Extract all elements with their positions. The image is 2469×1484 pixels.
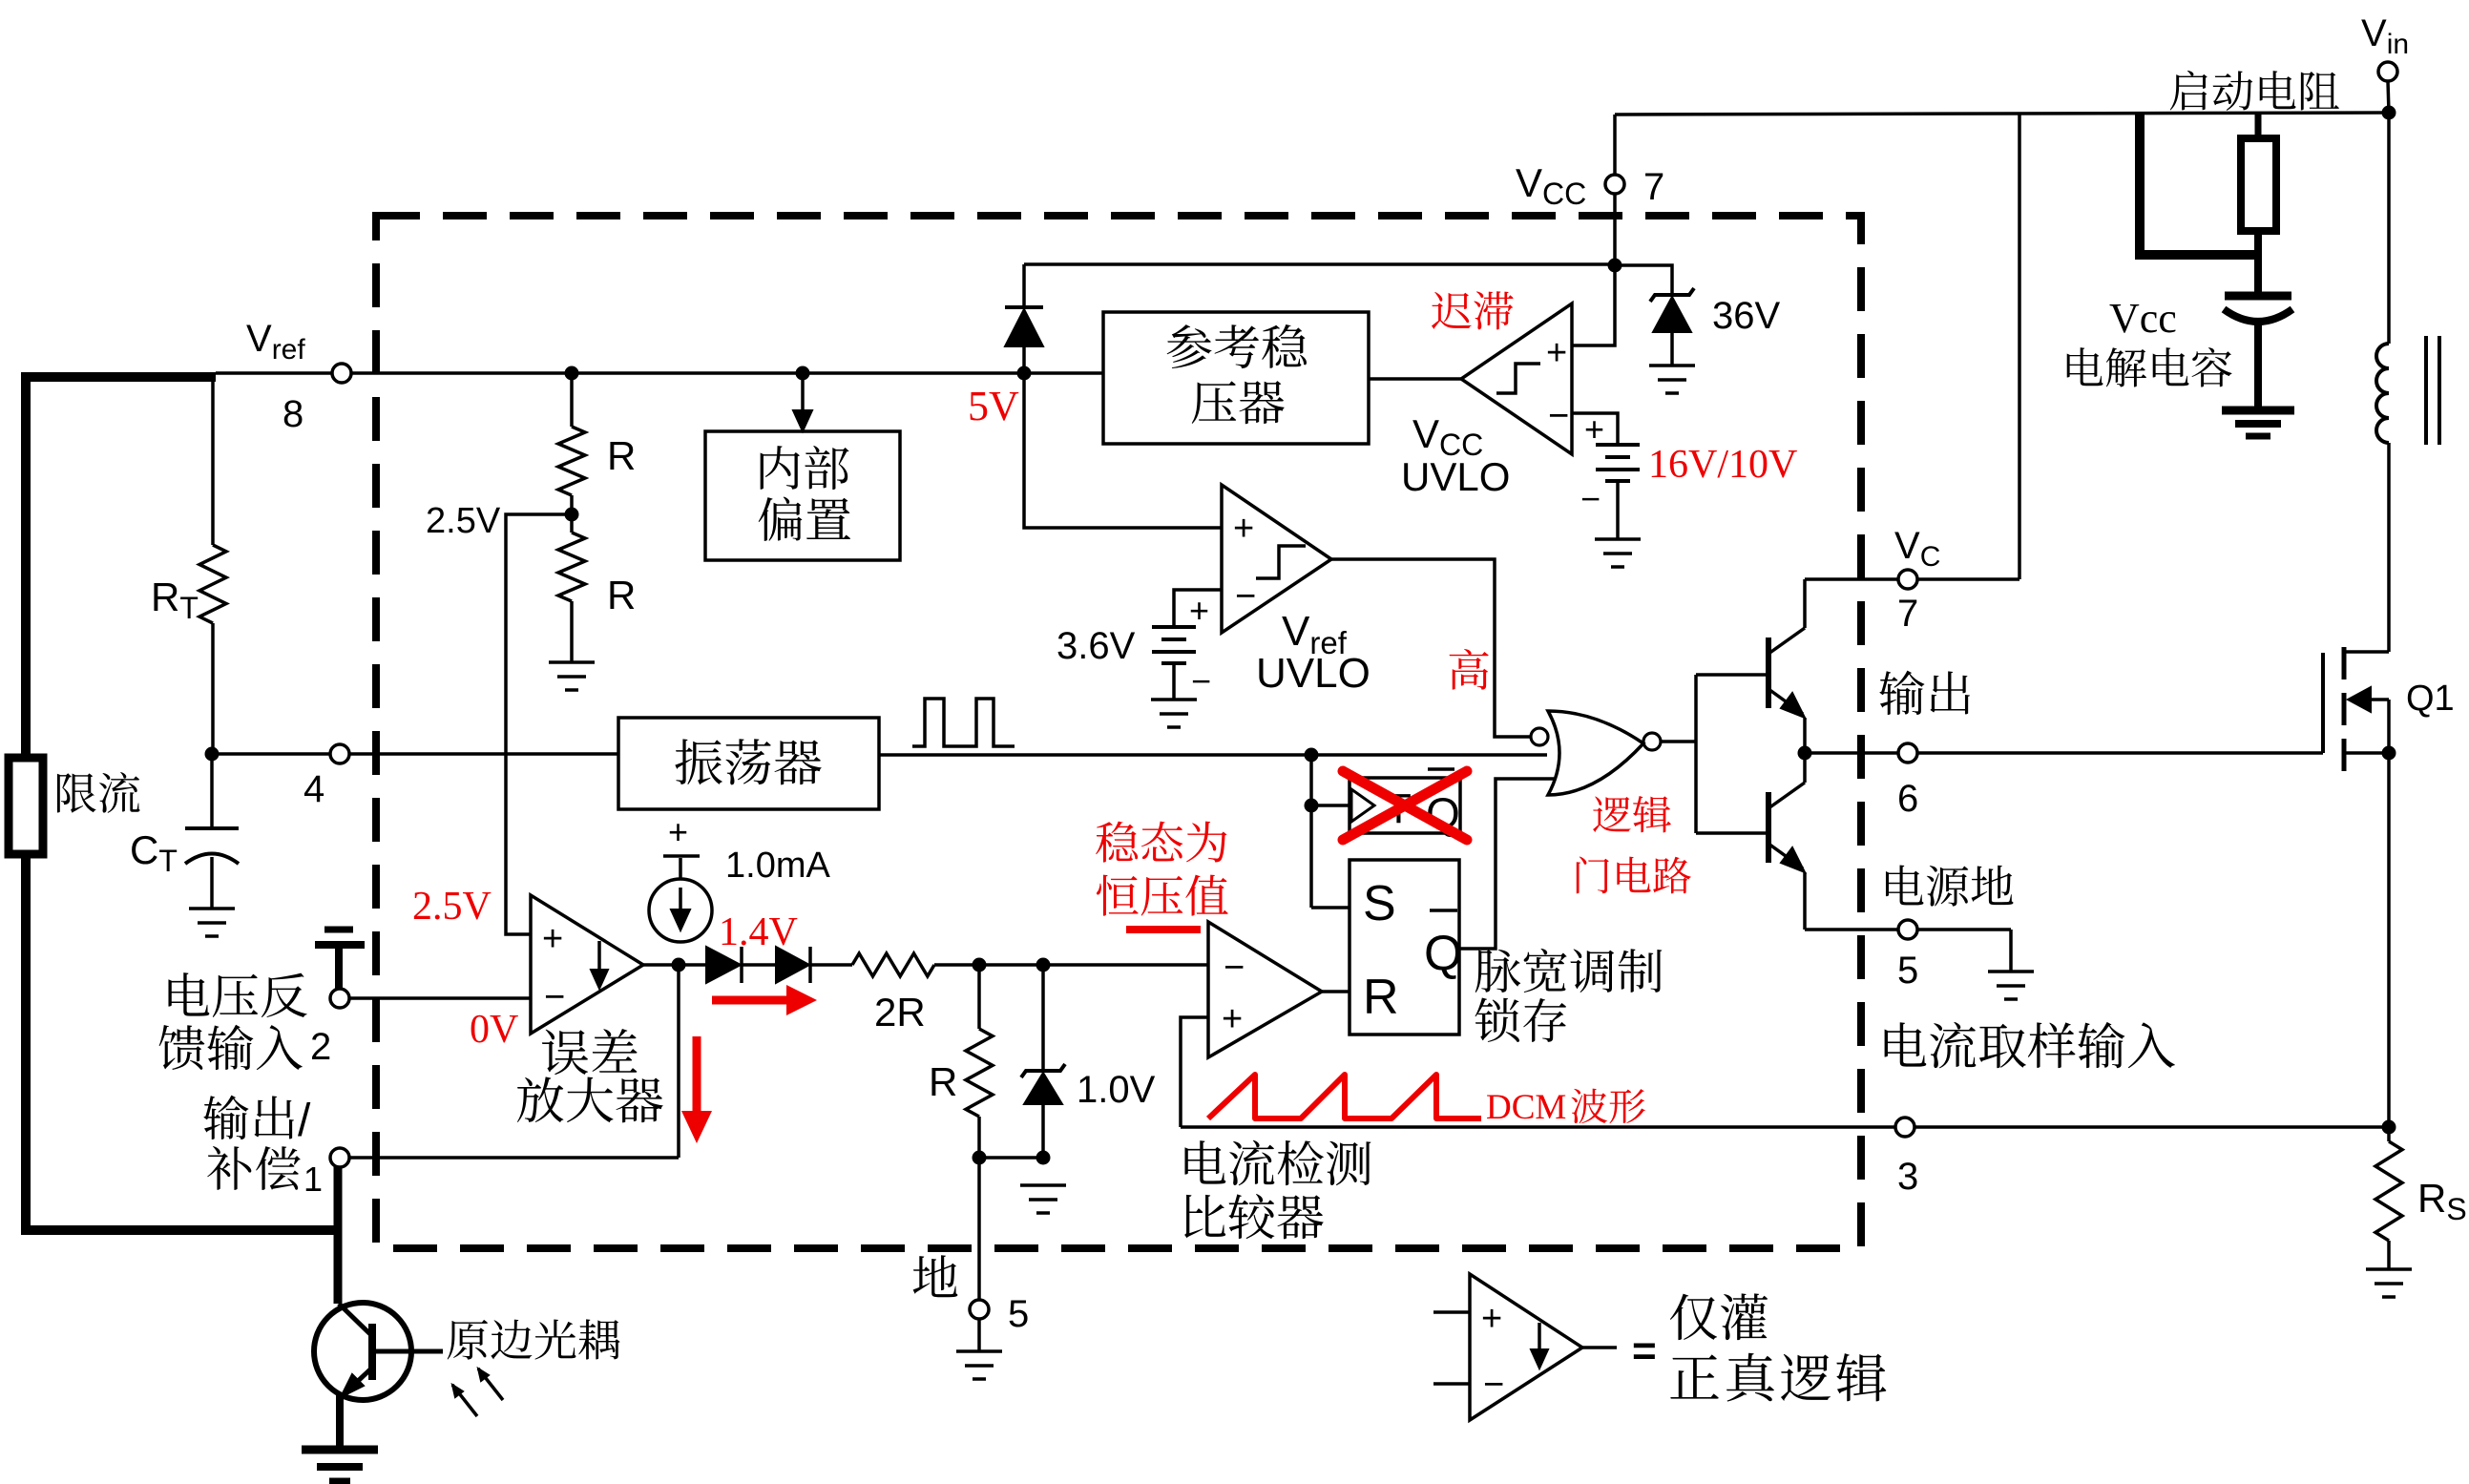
svg-text:−: − [1191, 661, 1211, 700]
wire: oscillator output [879, 753, 1547, 757]
red text 稳态为恒压值 [1096, 822, 1138, 863]
IC boundary dashed box [376, 216, 1861, 1248]
node: 2.5V tap [565, 508, 579, 522]
pin 6 output terminal [1805, 751, 1898, 755]
resistor R to ground [977, 965, 981, 1029]
logic gate 逻辑门电路 (NOR) [1531, 728, 1548, 745]
transistor: optocoupler 原边光耦 [314, 1303, 411, 1400]
ground below 3.6V battery [1151, 698, 1197, 701]
svg-text:+: + [1189, 591, 1209, 630]
svg-text:1.0mA: 1.0mA [725, 846, 830, 886]
svg-text:+: + [1222, 999, 1243, 1039]
ground below 36V zener [1649, 364, 1695, 367]
svg-text:3.6V: 3.6V [1057, 625, 1136, 667]
resistor 限流 (current limit) [9, 758, 43, 854]
wire: thick feedback loop from Vref pin 8 [26, 377, 216, 758]
pin 3 terminal [1895, 1118, 1915, 1137]
pin 2 terminal 电压反馈输入 [330, 989, 349, 1008]
svg-text:1: 1 [303, 1160, 323, 1199]
node: 2R to R junction [973, 958, 987, 972]
svg-text:5: 5 [1897, 950, 1918, 992]
pin 5 ground terminal 地 [970, 1300, 989, 1319]
svg-text:Q: Q [1424, 926, 1462, 981]
wire: ground pin 5 [977, 1158, 981, 1300]
transistor: totem top NPN [1766, 637, 1771, 708]
wire: regulator enable from VCC UVLO [1369, 377, 1461, 381]
wire pin 1 compensation [348, 1156, 679, 1160]
block 振荡器 oscillator [618, 718, 879, 809]
svg-text:R: R [929, 1059, 957, 1104]
Vin terminal [2378, 62, 2397, 81]
transistor: totem bottom NPN [1766, 792, 1771, 863]
svg-text:1.4V: 1.4V [719, 910, 798, 954]
block 内部偏置 internal bias [705, 431, 900, 560]
wire arrow into internal bias box [801, 373, 805, 417]
svg-text:−: − [1483, 1365, 1504, 1405]
svg-text:−: − [1548, 396, 1569, 436]
node: osc to latch [1305, 748, 1319, 763]
svg-text:Vcc: Vcc [2109, 295, 2177, 342]
node: VCC internal [1608, 259, 1622, 273]
svg-text:Q1: Q1 [2406, 679, 2455, 719]
resistor RT [211, 377, 215, 545]
wire: thick loop bottom [26, 854, 336, 1230]
svg-text:+: + [542, 919, 563, 959]
wire: plus input from pin 3 [1181, 1017, 1208, 1127]
red X over T flip-flop [1343, 771, 1467, 840]
startup resistor 启动电阻 (thick) [2170, 71, 2207, 111]
svg-text:7: 7 [1897, 593, 1918, 635]
wire: gate output to totem bases [1661, 740, 1696, 743]
wire: VCC UVLO + input [1572, 265, 1615, 345]
op-amp error amplifier 误差放大器 [531, 895, 643, 1034]
capacitor Vcc electrolytic [2254, 255, 2262, 296]
svg-text:−: − [1235, 576, 1256, 617]
pin 7 Vc terminal [1805, 577, 1898, 581]
wire: diode to VCC node [1024, 262, 1615, 266]
latch box S R Q [1350, 860, 1459, 1035]
node: Vref-R divider junction [565, 366, 579, 381]
zener diode 36V [1653, 297, 1691, 332]
wire: Vref UVLO - input to 3.6V battery [1174, 590, 1222, 627]
thick hookup wire [2140, 113, 2258, 255]
node Vin junction [2382, 106, 2396, 120]
battery symbol above pin 2 [324, 927, 353, 933]
svg-text:2.5V: 2.5V [412, 885, 492, 929]
wire: optocoupler emitter to ground [336, 1395, 344, 1451]
node: internal bias tap [796, 366, 810, 381]
node: current sense junction [2382, 1120, 2396, 1135]
wire: pin 3 current sense line [1181, 1125, 1896, 1129]
svg-text:6: 6 [1897, 778, 1918, 820]
pin 1 terminal 输出/补偿 [330, 1148, 349, 1167]
wire: R latch input [1322, 990, 1350, 993]
battery 3.6V [1152, 625, 1196, 629]
svg-text:36V: 36V [1712, 295, 1780, 337]
wire: 2.5V to error amp + [506, 514, 572, 934]
svg-text:2: 2 [310, 1026, 331, 1068]
op-amp Vref UVLO comparator [1222, 485, 1331, 633]
capacitor CT [210, 754, 214, 828]
diode D2 [776, 947, 809, 983]
svg-text:3: 3 [1897, 1156, 1918, 1198]
node: RT/CT junction [205, 747, 220, 762]
svg-text:2R: 2R [874, 990, 926, 1035]
svg-text:0V: 0V [470, 1008, 518, 1052]
wire: Vc to top rail [2018, 113, 2021, 579]
ground below battery [1595, 537, 1641, 541]
diode D1 [706, 947, 741, 983]
pin 4 terminal [330, 744, 349, 763]
resistor RS [2375, 1141, 2402, 1241]
node: output junction [1798, 746, 1812, 761]
ground below divider [549, 660, 595, 664]
resistor R (upper divider) [570, 373, 574, 427]
wire: error amp output feedback to pin 1 [677, 965, 680, 1158]
svg-text:7: 7 [1643, 166, 1664, 208]
svg-text:R: R [607, 433, 636, 478]
svg-text:16V/10V: 16V/10V [1648, 443, 1797, 487]
node: bottom junction [973, 1151, 987, 1165]
resistor R (lower divider) [558, 533, 585, 601]
node: zener top [1036, 958, 1051, 972]
wire pin 4 to oscillator [212, 752, 618, 756]
red current arrow down [693, 1036, 701, 1117]
wire: zener branch [1615, 265, 1672, 295]
legend comparator symbol [1470, 1274, 1582, 1420]
pin 5 power ground terminal [1805, 928, 1898, 931]
node Vref / pin 8 wire [216, 371, 1103, 375]
ground below RS [2366, 1267, 2412, 1271]
wire: Q1 source to RS [2387, 753, 2391, 1141]
clock square wave symbol [912, 699, 1015, 746]
zener diode 1.0V [1041, 965, 1045, 1071]
node: error amp output [672, 958, 686, 972]
svg-text:−: − [544, 977, 565, 1017]
red DCM waveform [1208, 1075, 1481, 1118]
svg-text:+: + [1584, 409, 1604, 449]
pin 8 terminal [332, 364, 351, 383]
wire: thick riser to pin 1 [334, 1166, 343, 1226]
svg-text:=: = [1632, 1327, 1657, 1374]
resistor 2R [852, 953, 934, 976]
svg-text:S: S [1363, 876, 1396, 931]
svg-text:4: 4 [303, 768, 324, 810]
svg-text:−: − [1224, 948, 1245, 988]
svg-text:/: / [298, 1096, 311, 1146]
block 参考稳压器 reference regulator [1103, 312, 1369, 444]
transformer core [2424, 336, 2428, 445]
ground below CT [189, 907, 235, 910]
diode to VCC from 5V node [1022, 346, 1026, 373]
battery 16V/10V [1596, 443, 1640, 447]
svg-text:8: 8 [282, 393, 303, 435]
wire: 5V to Vref UVLO + [1024, 373, 1222, 528]
svg-text:+: + [1546, 333, 1567, 373]
wire: Vref UVLO output 高 to logic gate [1331, 559, 1531, 737]
pin 7 VCC terminal [1613, 194, 1617, 265]
svg-text:1.0V: 1.0V [1077, 1069, 1156, 1111]
top rail VCC to Vin [1615, 113, 2389, 115]
ground below zener [1020, 1183, 1066, 1187]
svg-text:+: + [1481, 1299, 1502, 1339]
transistor Q1 MOSFET [2321, 653, 2325, 753]
svg-text:2.5V: 2.5V [426, 501, 501, 541]
svg-text:R: R [1363, 970, 1399, 1025]
node: 5V [1017, 366, 1032, 381]
svg-text:+: + [1233, 509, 1254, 549]
svg-text:UVLO: UVLO [1256, 650, 1371, 697]
node: Q1 source [2382, 746, 2396, 761]
op-amp current sense comparator 电流检测比较器 [1208, 922, 1322, 1057]
wire: latch Q output to gate [1459, 779, 1554, 949]
wire: VCC UVLO - input to 16V/10V battery [1572, 413, 1618, 445]
ground below Vcc cap (thick) [2222, 407, 2294, 415]
svg-text:+: + [668, 812, 688, 851]
red current arrow right [712, 996, 792, 1005]
svg-text:5: 5 [1008, 1293, 1029, 1335]
T flip-flop (crossed out) [1311, 804, 1350, 807]
light arrows into optocoupler [452, 1385, 477, 1416]
ground below optocoupler [302, 1446, 378, 1454]
current source 1.0mA [649, 879, 712, 942]
transformer primary winding [2387, 443, 2391, 652]
svg-text:5V: 5V [968, 383, 1019, 429]
svg-text:UVLO: UVLO [1401, 454, 1510, 499]
svg-text:−: − [1580, 479, 1601, 518]
op-amp VCC UVLO comparator (points left) [1461, 303, 1572, 454]
svg-text:R: R [607, 573, 636, 617]
svg-text:DCM: DCM [1486, 1088, 1566, 1127]
